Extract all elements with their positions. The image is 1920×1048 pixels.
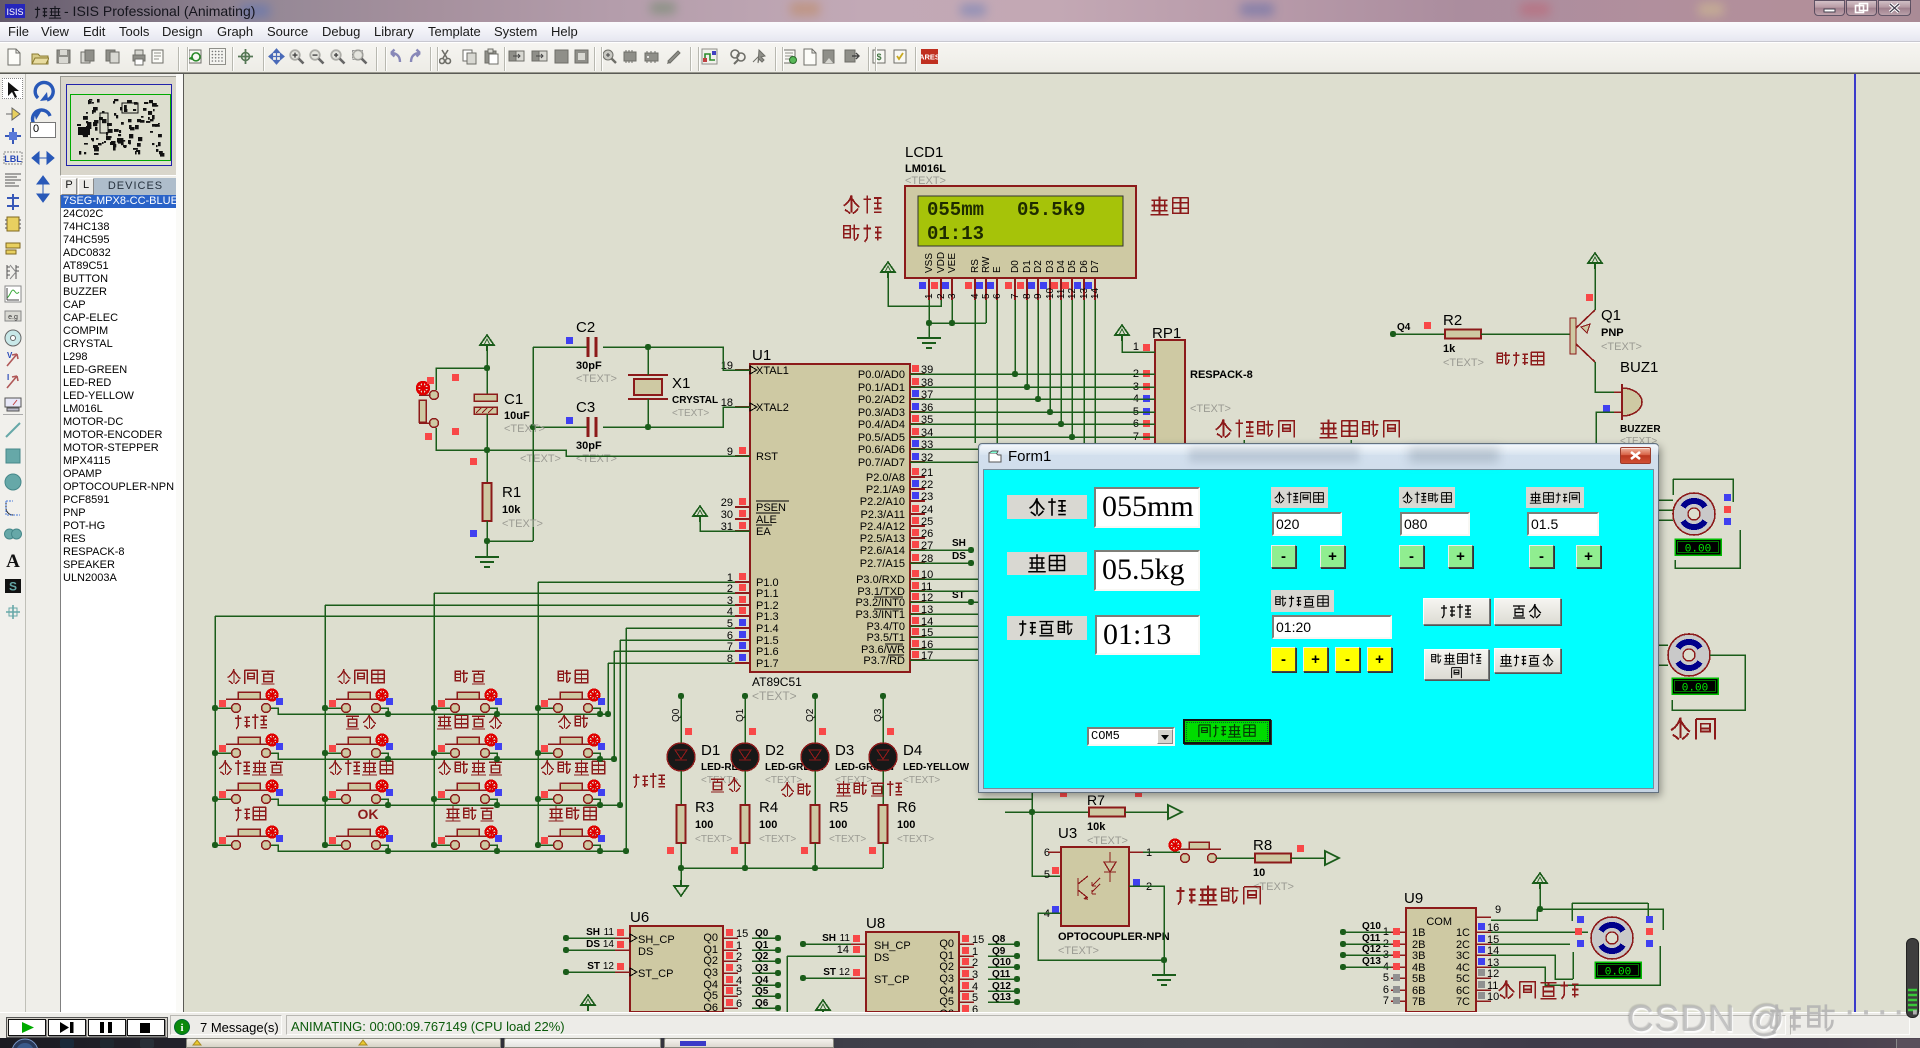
svg-text:Q0: Q0 [703,932,718,944]
svg-text:R2: R2 [1443,312,1462,329]
power arrow Q1 emitter [1588,253,1602,269]
svg-text:D3: D3 [835,742,854,759]
button defecation [1143,851,1180,853]
svg-text:Q11: Q11 [1362,933,1381,944]
svg-text:D2: D2 [765,742,784,759]
power arrow EA [693,506,707,522]
svg-text:2: 2 [936,293,947,299]
svg-text:P2.6/A14: P2.6/A14 [860,545,905,557]
watermark [1627,998,1786,1040]
svg-text:14: 14 [603,939,615,950]
svg-text:DS: DS [952,551,966,562]
svg-text:ST: ST [823,967,836,978]
labels SH DS ST nets [910,549,968,551]
net labels Q10-Q13 [1340,929,1346,935]
svg-text:BUZZER: BUZZER [1620,424,1661,435]
svg-text:7: 7 [1383,995,1389,1007]
svg-text:P2.2/A10: P2.2/A10 [860,496,905,508]
labels water/weight detect [1216,419,1232,437]
svg-text:U1: U1 [752,347,771,364]
svg-text:<TEXT>: <TEXT> [520,453,561,465]
svg-text:ST_CP: ST_CP [874,974,909,986]
time set group [1271,590,1334,612]
svg-text:5: 5 [972,992,978,1004]
svg-text:P1.3: P1.3 [756,611,779,623]
svg-text:D1: D1 [1022,260,1033,273]
svg-text:<TEXT>: <TEXT> [903,775,940,786]
svg-text:U6: U6 [630,909,649,926]
svg-text:11: 11 [604,927,615,938]
svg-text:AT89C51: AT89C51 [752,675,802,689]
svg-text:U9: U9 [1404,890,1423,907]
svg-text:Q10: Q10 [1362,921,1381,932]
svg-text:A: A [6,551,20,570]
right scroll thumb [1906,938,1919,1018]
power arrow RP1 [1115,325,1129,341]
svg-text:SH: SH [586,927,600,938]
label 清便 [781,782,794,797]
svg-text:ALE: ALE [756,514,777,526]
svg-text:RW: RW [981,256,992,273]
svg-text:P3.2/INT0: P3.2/INT0 [855,597,905,609]
svg-text:30pF: 30pF [576,440,602,452]
svg-text:Q12: Q12 [1362,944,1381,955]
led D2 LED-GREEN [742,693,748,699]
svg-text:P3.7/RD: P3.7/RD [863,655,905,667]
stepper motor cleaning [1591,917,1633,959]
button reset [436,368,487,390]
button OK [342,841,351,850]
svg-text:SH_CP: SH_CP [874,940,911,952]
svg-text:e.g: e.g [8,314,18,321]
svg-text:0.00: 0.00 [1685,544,1711,556]
svg-text:ISIS: ISIS [6,7,23,17]
svg-text:11: 11 [1056,288,1067,299]
form action buttons [1423,598,1490,625]
svg-text:7C: 7C [1456,996,1470,1008]
svg-text:LCD1: LCD1 [905,144,943,161]
svg-text:2: 2 [1146,881,1152,893]
wire XTAL net bottom [648,407,750,427]
svg-text:OK: OK [358,806,379,822]
resistor R3 100 [680,771,682,805]
svg-text:7: 7 [1010,293,1021,299]
svg-text:2: 2 [736,951,742,963]
svg-text:<TEXT>: <TEXT> [502,518,543,530]
stepper motor cleaning wires [1540,909,1663,930]
svg-text:P1.4: P1.4 [756,623,779,635]
svg-text:U3: U3 [1058,825,1077,842]
mcu U1 AT89C51 [750,364,910,672]
svg-text:Q4: Q4 [1397,322,1411,333]
svg-text:EA: EA [756,526,771,538]
svg-text:D0: D0 [1010,260,1021,273]
svg-text:10: 10 [1045,287,1056,299]
svg-text:VEE: VEE [947,253,958,273]
svg-text:30: 30 [721,509,733,521]
svg-text:<TEXT>: <TEXT> [1190,403,1231,415]
svg-text:Q3: Q3 [703,967,718,979]
ground U3 [1163,960,1165,975]
label 喂食 [633,774,648,788]
wire XTAL net top [648,347,750,370]
svg-text:P2.5/A13: P2.5/A13 [860,533,905,545]
button key r4c1 [232,841,241,850]
power arrow U8 [816,1000,830,1016]
label water level cn [844,195,860,213]
wire U3 pin2 [1129,886,1164,960]
display cleaning motor [1595,962,1641,978]
svg-text:LBL: LBL [4,154,22,164]
form labels/fields left column [1007,495,1087,519]
wires P3 under form [910,578,978,580]
svg-text:1k: 1k [1443,343,1456,355]
button key r1c2 [342,704,351,713]
power arrow U6 [581,995,595,1011]
svg-text:R4: R4 [759,799,778,816]
svg-text:OPTOCOUPLER-NPN: OPTOCOUPLER-NPN [1058,931,1170,943]
svg-text:LM016L: LM016L [905,163,946,175]
label weight cn [1150,196,1168,214]
svg-text:15: 15 [972,934,984,946]
svg-text:14: 14 [1090,287,1101,299]
svg-text:1B: 1B [1412,927,1425,939]
svg-text:5: 5 [1044,869,1050,881]
svg-text:6: 6 [1044,847,1050,859]
svg-text:<TEXT>: <TEXT> [576,453,617,465]
svg-text:<TEXT>: <TEXT> [1087,835,1128,847]
wire RST [487,450,750,456]
motor water top [1658,499,1673,501]
button key r3c4 [554,795,563,804]
svg-text:P3.5/T1: P3.5/T1 [866,632,905,644]
svg-text:9: 9 [1495,904,1501,916]
label water machine [1671,718,1690,740]
resistor R8 10 [1216,857,1255,859]
svg-text:6: 6 [992,293,1003,299]
svg-text:DS: DS [638,946,653,958]
wire buzzer bottom [1596,412,1614,443]
svg-text:Q2: Q2 [703,955,718,967]
svg-text:C1: C1 [504,391,523,408]
button key r2c4 [554,749,563,758]
svg-text:30pF: 30pF [576,360,602,372]
U6 input wires [563,935,569,941]
svg-text:10k: 10k [502,504,521,516]
svg-text:Q13: Q13 [1362,956,1381,967]
svg-text:12: 12 [603,961,615,972]
power arrow VDD [881,262,895,278]
svg-text:<TEXT>: <TEXT> [1443,357,1484,369]
svg-text:D1: D1 [701,742,720,759]
svg-text:Q5: Q5 [939,996,954,1008]
svg-text:100: 100 [759,819,777,831]
U8 input wires [800,941,806,947]
svg-text:XTAL2: XTAL2 [756,402,789,414]
svg-text:3: 3 [736,963,742,975]
svg-text:6: 6 [972,1004,978,1012]
svg-text:P0.6/AD6: P0.6/AD6 [858,444,905,456]
svg-text:01:13: 01:13 [927,223,984,245]
crystal X1 [634,379,662,395]
label 加水 [711,779,724,792]
svg-text:1: 1 [1146,847,1152,859]
svg-text:S: S [9,580,17,594]
led D4 LED-YELLOW [880,693,886,699]
svg-text:Q0: Q0 [939,938,954,950]
svg-text:I: I [7,373,9,382]
svg-text:13: 13 [1079,287,1090,299]
svg-text:Q5: Q5 [703,990,718,1002]
svg-text:12: 12 [1487,968,1499,980]
svg-text:14: 14 [837,944,849,956]
node Q4 [1390,331,1396,337]
svg-text:P1.6: P1.6 [756,646,779,658]
sheet border [1854,74,1856,1012]
svg-text:P1.1: P1.1 [756,588,779,600]
svg-text:D2: D2 [1033,260,1044,273]
svg-text:D5: D5 [1067,260,1078,273]
svg-text:D7: D7 [1090,260,1101,273]
wires LCD data/ctrl down [974,300,976,443]
svg-text:XTAL1: XTAL1 [756,365,789,377]
svg-text:C3: C3 [576,399,595,416]
svg-text:PNP: PNP [1601,327,1624,339]
svg-text:<TEXT>: <TEXT> [695,834,732,845]
button key r3c1 [232,795,241,804]
button key r2c2 [342,749,351,758]
svg-text:R3: R3 [695,799,714,816]
svg-text:V: V [7,351,13,360]
svg-text:P3.3/INT1: P3.3/INT1 [855,609,905,621]
wire U3 pin4 to gnd [1038,913,1164,960]
display water motor 2 [1672,678,1718,694]
svg-text:P0.0/AD0: P0.0/AD0 [858,369,905,381]
svg-text:P0.2/AD2: P0.2/AD2 [858,394,905,406]
svg-text:RST: RST [756,451,778,463]
svg-text:05.5k9: 05.5k9 [1017,199,1085,221]
button key r1c3 [451,704,460,713]
svg-text:R5: R5 [829,799,848,816]
svg-text:ARES: ARES [921,53,939,62]
taskbar [0,1038,1920,1048]
svg-text:ST: ST [587,961,600,972]
Form1 window [978,443,1659,793]
svg-text:3: 3 [947,293,958,299]
svg-text:15: 15 [736,928,748,940]
keypad row buses + risers to P1.4-P1.7 [278,663,608,714]
svg-text:9: 9 [1033,293,1044,299]
svg-text:X1: X1 [672,375,690,392]
svg-text:2: 2 [972,957,978,969]
svg-text:Q2: Q2 [939,961,954,973]
form right upper groups [1271,487,1328,508]
label buzzer cn [1497,352,1510,365]
svg-text:26: 26 [921,528,933,540]
svg-text:4: 4 [970,293,981,299]
svg-text:D3: D3 [1045,260,1056,273]
svg-text:1: 1 [924,293,935,299]
wire gnd vertical for caps [532,347,534,541]
svg-text:CRYSTAL: CRYSTAL [672,395,718,406]
svg-text:P0.1/AD1: P0.1/AD1 [858,382,905,394]
svg-text:<TEXT>: <TEXT> [759,834,796,845]
svg-text:7B: 7B [1412,996,1425,1008]
svg-text:R8: R8 [1253,837,1272,854]
COM5 combo [1087,727,1175,746]
svg-text:5B: 5B [1412,973,1425,985]
button key r4c3 [451,841,460,850]
resistor R4 100 [744,771,746,805]
svg-text:ST_CP: ST_CP [638,968,673,980]
svg-text:D6: D6 [1079,260,1090,273]
wire led ground bus [681,867,883,869]
svg-text:<TEXT>: <TEXT> [672,408,709,419]
svg-text:E: E [992,266,1003,273]
svg-text:SH: SH [952,538,966,549]
svg-text:<TEXT>: <TEXT> [765,775,802,786]
svg-text:R7: R7 [1087,792,1105,808]
label defecation detect [1176,887,1195,905]
button key r1c4 [554,704,563,713]
svg-text:10: 10 [1253,867,1265,879]
svg-text:<TEXT>: <TEXT> [1058,945,1099,957]
svg-text:22: 22 [921,479,933,491]
svg-text:P2.7/A15: P2.7/A15 [860,558,905,570]
svg-text:C2: C2 [576,319,595,336]
svg-text:3B: 3B [1412,950,1425,962]
svg-text:R6: R6 [897,799,916,816]
svg-text:P0.4/AD4: P0.4/AD4 [858,419,905,431]
svg-text:5: 5 [1383,972,1389,984]
svg-text:8: 8 [1022,293,1033,299]
motor water bottom [1658,644,1668,646]
svg-text:P3.0/RXD: P3.0/RXD [856,574,905,586]
svg-text:<TEXT>: <TEXT> [752,689,797,703]
svg-text:12: 12 [839,967,851,978]
svg-text:3: 3 [972,969,978,981]
svg-text:12: 12 [1067,287,1078,299]
svg-text:21: 21 [921,467,933,479]
svg-text:P2.1/A9: P2.1/A9 [866,484,905,496]
svg-text:5: 5 [736,986,742,998]
svg-text:$: $ [876,52,881,62]
resistor R1 10k [486,450,488,483]
svg-text:U8: U8 [866,915,885,932]
wire Q1 collector to buzzer [1595,362,1620,392]
svg-text:5C: 5C [1456,973,1470,985]
svg-text:<TEXT>: <TEXT> [829,834,866,845]
power arrow reset [480,335,494,351]
svg-text:055mm: 055mm [927,199,984,221]
svg-text:i: i [180,1022,183,1034]
svg-text:P0.7/AD7: P0.7/AD7 [858,457,905,469]
svg-text:0.00: 0.00 [1682,683,1708,695]
svg-text:RS: RS [970,259,981,273]
svg-text:25: 25 [921,516,933,528]
svg-text:P2.3/A11: P2.3/A11 [861,509,905,521]
svg-text:PSEN: PSEN [756,502,786,514]
svg-text:10uF: 10uF [504,410,530,422]
svg-text:<TEXT>: <TEXT> [576,373,617,385]
capacitor C1 10uF [486,351,488,394]
svg-text:RESPACK-8: RESPACK-8 [1190,369,1253,381]
keypad column verticals + wires to P1.0-P1.3 [214,616,216,845]
svg-text:100: 100 [695,819,713,831]
ground R1 [486,541,488,557]
svg-text:P2.4/A12: P2.4/A12 [860,521,905,533]
svg-text:<TEXT>: <TEXT> [504,423,545,435]
svg-text:LED-YELLOW: LED-YELLOW [903,762,970,773]
ground arrow leds [680,868,682,880]
resistor R5 100 [814,771,816,805]
svg-text:VDD: VDD [936,252,947,273]
svg-text:0.00: 0.00 [1605,967,1631,979]
svg-text:BUZ1: BUZ1 [1620,359,1658,376]
status bar [0,1012,1920,1038]
svg-text:24: 24 [921,504,933,516]
svg-text:P1.7: P1.7 [756,658,779,670]
svg-text:Q3: Q3 [939,973,954,985]
label 重量 [836,781,851,796]
svg-text:SH: SH [822,933,836,944]
button key r1c1 [232,704,241,713]
svg-text:<TEXT>: <TEXT> [897,834,934,845]
svg-text:Q6: Q6 [703,1002,718,1012]
svg-text:<TEXT>: <TEXT> [1601,341,1642,353]
svg-text:10k: 10k [1087,821,1106,833]
button key r3c2 [342,795,351,804]
svg-text:P0.3/AD3: P0.3/AD3 [858,407,905,419]
button key r2c3 [451,749,460,758]
button key r3c3 [451,795,460,804]
svg-text:P0.5/AD5: P0.5/AD5 [858,432,905,444]
svg-text:1C: 1C [1456,927,1470,939]
svg-text:DS: DS [874,952,889,964]
close serial button [1183,719,1271,744]
svg-text:R1: R1 [502,484,521,501]
svg-text:COM: COM [1426,916,1452,928]
svg-text:100: 100 [897,819,915,831]
svg-text:10: 10 [1487,991,1499,1003]
svg-text:SH_CP: SH_CP [638,934,675,946]
svg-text:VSS: VSS [924,253,935,273]
display water motor [1675,539,1721,555]
svg-text:D4: D4 [903,742,922,759]
svg-text:DS: DS [586,939,600,950]
svg-text:Q6: Q6 [939,1008,954,1012]
svg-text:11: 11 [840,933,851,944]
wire VDD [888,278,941,306]
svg-text:4: 4 [1044,908,1050,920]
svg-text:5: 5 [981,293,992,299]
svg-text:1: 1 [1133,341,1139,353]
svg-text:Q1: Q1 [1601,307,1621,324]
wire P0 bus [910,373,1155,375]
led D1 LED-RED [678,693,684,699]
button key r2c1 [232,749,241,758]
resistor R7 10k [978,798,1032,800]
resistor R6 100 [882,771,884,805]
ground LCD [928,323,930,338]
label time cn [844,225,860,241]
power arrow U9 COM [1533,873,1547,889]
resistor R2 1k [1393,333,1445,335]
svg-text:100: 100 [829,819,847,831]
svg-text:6: 6 [736,998,742,1010]
button key r4c4 [554,841,563,850]
svg-text:29: 29 [721,497,733,509]
